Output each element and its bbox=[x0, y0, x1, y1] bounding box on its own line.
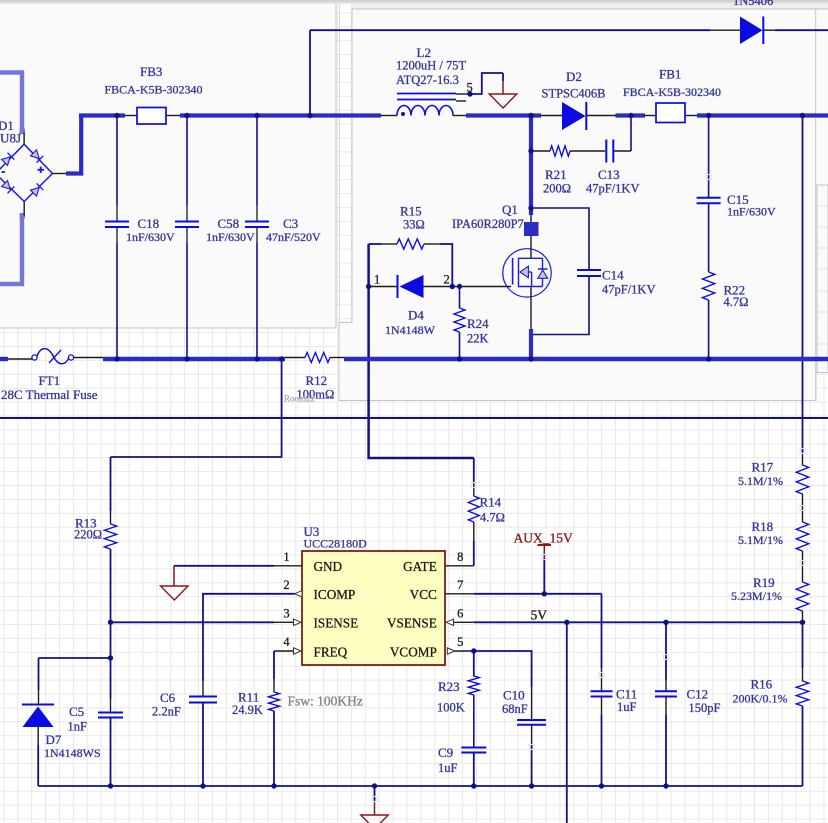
svg-text:220Ω: 220Ω bbox=[74, 527, 102, 541]
svg-text:C3: C3 bbox=[283, 216, 298, 231]
svg-text:ICOMP: ICOMP bbox=[314, 587, 356, 602]
svg-text:22K: 22K bbox=[467, 332, 489, 346]
svg-text:VCC: VCC bbox=[410, 587, 437, 602]
svg-text:6: 6 bbox=[457, 606, 463, 620]
svg-text:R14: R14 bbox=[480, 495, 502, 510]
svg-text:4.7Ω: 4.7Ω bbox=[480, 511, 505, 525]
svg-text:1N4148W: 1N4148W bbox=[385, 323, 436, 337]
svg-text:R19: R19 bbox=[753, 575, 775, 590]
svg-text:STPSC406B: STPSC406B bbox=[542, 87, 606, 101]
svg-text:24.9K: 24.9K bbox=[232, 703, 263, 717]
svg-text:1N4148WS: 1N4148WS bbox=[44, 746, 101, 760]
svg-text:4.7Ω: 4.7Ω bbox=[724, 295, 749, 309]
svg-text:R16: R16 bbox=[751, 676, 773, 691]
svg-text:1200uH / 75T: 1200uH / 75T bbox=[396, 59, 467, 73]
svg-text:1uF: 1uF bbox=[617, 700, 637, 714]
svg-text:1nF/630V: 1nF/630V bbox=[727, 205, 776, 219]
svg-text:C12: C12 bbox=[687, 687, 709, 702]
svg-text:5.23M/1%: 5.23M/1% bbox=[731, 589, 782, 603]
svg-text:47nF/520V: 47nF/520V bbox=[266, 230, 321, 244]
svg-text:C10: C10 bbox=[503, 687, 525, 702]
svg-text:D2: D2 bbox=[566, 69, 582, 84]
svg-text:R18: R18 bbox=[752, 519, 774, 534]
svg-text:C13: C13 bbox=[598, 167, 620, 182]
svg-text:FB3: FB3 bbox=[140, 64, 162, 79]
svg-text:R24: R24 bbox=[467, 316, 489, 331]
svg-text:1nF/630V: 1nF/630V bbox=[206, 230, 255, 244]
svg-text:C9: C9 bbox=[438, 745, 453, 760]
svg-text:Fsw: 100KHz: Fsw: 100KHz bbox=[288, 694, 363, 709]
svg-text:R12: R12 bbox=[306, 373, 328, 388]
svg-text:R23: R23 bbox=[438, 679, 460, 694]
svg-text:3: 3 bbox=[283, 606, 289, 620]
svg-text:UCC28180D: UCC28180D bbox=[304, 537, 368, 551]
svg-text:5V: 5V bbox=[531, 608, 548, 623]
svg-text:FREQ: FREQ bbox=[314, 644, 348, 659]
svg-text:33Ω: 33Ω bbox=[403, 217, 425, 231]
svg-text:FT1: FT1 bbox=[39, 373, 61, 388]
svg-text:Room22: Room22 bbox=[284, 394, 315, 404]
svg-text:Q1: Q1 bbox=[502, 202, 518, 217]
svg-text:5.1M/1%: 5.1M/1% bbox=[738, 533, 783, 547]
svg-text:1: 1 bbox=[374, 273, 380, 287]
svg-text:GND: GND bbox=[314, 559, 343, 574]
svg-text:ATQ27-16.3: ATQ27-16.3 bbox=[396, 73, 459, 87]
svg-text:C18: C18 bbox=[138, 216, 160, 231]
svg-text:GBU8J: GBU8J bbox=[0, 131, 21, 146]
svg-text:47pF/1KV: 47pF/1KV bbox=[602, 283, 655, 297]
svg-text:4: 4 bbox=[283, 635, 290, 649]
svg-text:FBCA-K5B-302340: FBCA-K5B-302340 bbox=[623, 85, 721, 99]
svg-text:1N5406: 1N5406 bbox=[733, 0, 773, 8]
svg-text:8: 8 bbox=[457, 550, 463, 564]
svg-text:FBCA-K5B-302340: FBCA-K5B-302340 bbox=[105, 83, 203, 97]
svg-text:GATE: GATE bbox=[403, 559, 437, 574]
svg-text:150pF: 150pF bbox=[689, 701, 721, 715]
svg-text:7: 7 bbox=[457, 578, 463, 592]
svg-text:D7: D7 bbox=[46, 732, 62, 747]
svg-text:2.2nF: 2.2nF bbox=[152, 705, 181, 719]
svg-text:IPA60R280P7: IPA60R280P7 bbox=[452, 217, 524, 231]
svg-text:VSENSE: VSENSE bbox=[387, 616, 437, 631]
svg-text:VCOMP: VCOMP bbox=[390, 644, 437, 659]
svg-text:2: 2 bbox=[283, 578, 289, 592]
svg-text:R21: R21 bbox=[545, 167, 567, 182]
svg-text:1: 1 bbox=[283, 550, 289, 564]
svg-text:1uF: 1uF bbox=[438, 761, 458, 775]
svg-text:C6: C6 bbox=[160, 690, 176, 705]
svg-text:D4: D4 bbox=[408, 308, 424, 323]
svg-text:100K: 100K bbox=[437, 700, 465, 714]
svg-text:68nF: 68nF bbox=[502, 702, 528, 716]
svg-text:5: 5 bbox=[457, 635, 463, 649]
svg-text:200K/0.1%: 200K/0.1% bbox=[733, 691, 788, 705]
svg-text:1nF/630V: 1nF/630V bbox=[126, 230, 175, 244]
svg-text:ISENSE: ISENSE bbox=[314, 616, 359, 631]
svg-text:5.1M/1%: 5.1M/1% bbox=[738, 474, 783, 488]
svg-text:28C Thermal Fuse: 28C Thermal Fuse bbox=[1, 387, 98, 402]
svg-text:47pF/1KV: 47pF/1KV bbox=[586, 181, 639, 195]
svg-text:200Ω: 200Ω bbox=[543, 181, 571, 195]
svg-text:R15: R15 bbox=[400, 203, 422, 218]
svg-text:C58: C58 bbox=[218, 216, 240, 231]
svg-text:R17: R17 bbox=[752, 460, 774, 475]
svg-text:C14: C14 bbox=[602, 268, 624, 283]
svg-text:2: 2 bbox=[444, 273, 450, 287]
svg-text:C5: C5 bbox=[69, 704, 84, 719]
svg-text:AUX_15V: AUX_15V bbox=[514, 530, 573, 545]
svg-text:1nF: 1nF bbox=[68, 720, 88, 734]
svg-text:FB1: FB1 bbox=[659, 67, 681, 82]
